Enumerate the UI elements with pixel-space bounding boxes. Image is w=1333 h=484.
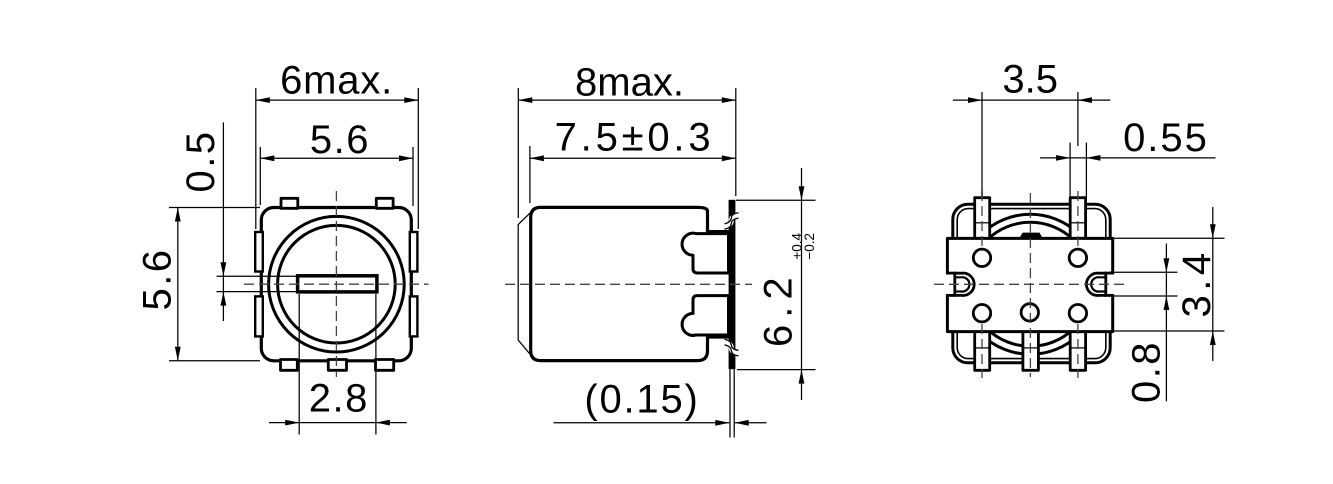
centerline horizontal: [934, 283, 1126, 285]
body outline (rounded square, top view): [261, 208, 411, 361]
svg-text:0.55: 0.55: [1123, 116, 1209, 160]
svg-text:5.6: 5.6: [135, 247, 179, 310]
rotor outer circle: [269, 216, 405, 352]
dim 0.55 line and arrows (outside): [1040, 157, 1215, 159]
dim 0.5 line and arrows: [222, 123, 224, 322]
pin bottom-right: [1070, 331, 1085, 371]
centerline horizontal: [505, 283, 752, 285]
right side notch flat side: [1104, 272, 1107, 297]
right side notch outer arc: [1086, 273, 1105, 295]
strip bend break lower (squiggle): [725, 342, 739, 353]
pin bottom-left: [975, 331, 990, 371]
dim 0.8 line and arrows (outside): [1165, 244, 1167, 402]
center band (resistor element housing): [947, 238, 1112, 331]
dim 0.55 extension lines: [1069, 143, 1071, 197]
dim 2.8 line and arrows: [269, 422, 407, 424]
dim 3.4 extension lines: [1109, 237, 1225, 239]
bottom terminal tab center: [328, 360, 346, 371]
dim 7.5 line and arrows: [530, 157, 736, 159]
dim 2.8 extension lines: [298, 294, 300, 435]
left side notch flat side: [953, 272, 956, 297]
dim 5.6 horizontal line and arrows: [260, 157, 413, 159]
dim 5.6 vertical line and arrows: [177, 208, 179, 361]
lower terminal step line: [708, 335, 730, 338]
body chamfer max outline (thin): [518, 209, 534, 360]
hole bottom-left: [973, 305, 990, 322]
right side tab upper: [410, 232, 418, 272]
left side tab upper: [255, 232, 263, 272]
upper terminal (crimped contact): [682, 233, 728, 273]
rotor inner circle (seen through gap): [968, 222, 1092, 346]
svg-text:6max.: 6max.: [280, 59, 393, 103]
pin bottom-center: [1023, 331, 1039, 371]
left side notch erase of band edge: [942, 274, 956, 294]
dim 3.5 extension lines: [981, 92, 983, 196]
pin top-right: [1070, 198, 1085, 240]
dim 6.2 line and arrows (outside): [801, 168, 803, 400]
hole top-right: [1069, 249, 1086, 266]
centerline vertical: [1029, 193, 1031, 377]
svg-text:0.5: 0.5: [179, 129, 223, 192]
dim 3.5 line and arrows (outside): [953, 99, 1110, 101]
svg-text:8max.: 8max.: [575, 60, 684, 104]
dim 3.4 line and arrows (outside): [1212, 207, 1214, 361]
svg-text:0.8: 0.8: [1125, 340, 1169, 403]
pin top-left: [975, 198, 990, 240]
dim 5.6 vertical extension lines: [169, 207, 260, 209]
hole top-left: [973, 249, 990, 266]
upper terminal step line: [708, 230, 730, 233]
shared right extension line: [735, 88, 737, 196]
top mounting tab left: [281, 198, 298, 208]
right side notch inner arc: [1091, 277, 1106, 291]
dim 8max line and arrows: [518, 99, 736, 101]
svg-text:3.4: 3.4: [1175, 248, 1219, 317]
svg-text:−0.2: −0.2: [802, 233, 817, 260]
svg-text:3.5: 3.5: [1002, 58, 1058, 102]
svg-text:(0.15): (0.15): [584, 378, 699, 422]
svg-text:6.2: 6.2: [756, 270, 800, 347]
pin centerline top-left: [981, 191, 983, 247]
dim 6max extension lines: [255, 88, 257, 229]
top mounting tab right: [376, 198, 393, 208]
dim 5.6 horizontal extension lines: [259, 147, 261, 205]
dim 6.2 extension lines: [736, 199, 816, 201]
rotor outer circle (seen through gap): [960, 214, 1100, 354]
left side notch inner arc: [955, 277, 970, 291]
strip bend break upper (squiggle): [725, 216, 739, 227]
hole bottom-right: [1069, 305, 1086, 322]
dim 6max line and arrows: [256, 99, 418, 101]
cover outline (bottom view, rounded square): [953, 204, 1110, 362]
body outline (side view): [531, 207, 708, 360]
cover inner seam line: [957, 209, 1106, 359]
svg-text:5.6: 5.6: [310, 118, 370, 162]
left side notch steps: [946, 272, 956, 275]
right side notch steps: [1104, 272, 1114, 275]
right side tab lower: [410, 296, 418, 336]
rotor inner circle: [278, 225, 396, 343]
right side notch erase of band edge: [1104, 274, 1118, 294]
lower terminal (crimped contact): [682, 296, 728, 336]
pin centerline bottom-right: [1077, 324, 1079, 378]
terminal strip (black bar): [729, 200, 736, 369]
dim 0.8 extension lines: [1109, 271, 1178, 273]
adjustment slot: [298, 276, 377, 292]
bottom terminal tab left: [281, 360, 298, 371]
svg-text:2.8: 2.8: [309, 376, 369, 420]
left side notch outer arc: [955, 273, 974, 295]
strip thickness extension lines (0.15): [729, 369, 731, 437]
svg-text:7.5±0.3: 7.5±0.3: [555, 116, 715, 160]
dim 7.5 extension line left: [529, 146, 531, 203]
adjustment slot extension lines for 0.5: [217, 275, 298, 277]
pin centerline top-right: [1077, 191, 1079, 247]
left side tab lower: [255, 296, 263, 336]
centerline horizontal: [244, 283, 429, 285]
rotor slot end (black trapezoid): [1019, 233, 1044, 240]
centerline vertical: [335, 191, 337, 377]
pin centerline bottom-left: [981, 324, 983, 378]
bottom terminal tab right: [376, 360, 394, 371]
hole bottom-center: [1021, 304, 1038, 321]
dim 8max extension line left: [517, 88, 519, 218]
dim (0.15) line and arrows: [554, 422, 730, 424]
